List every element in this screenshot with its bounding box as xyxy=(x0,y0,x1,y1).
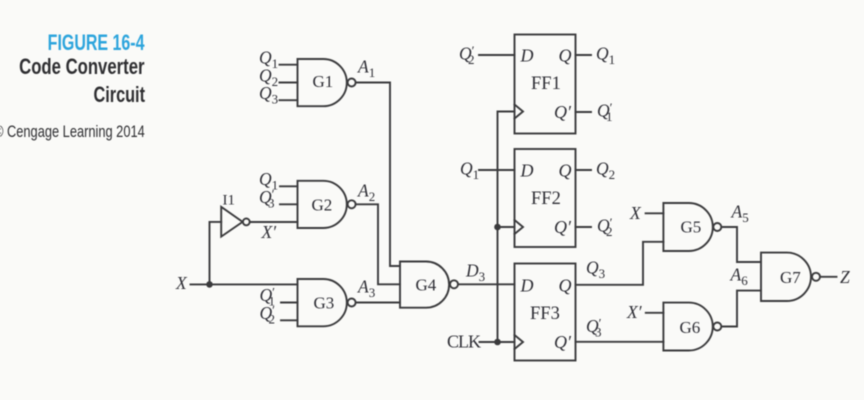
wire A3 from G3 output to G4 bottom input xyxy=(356,302,400,304)
junction clock at FF2 xyxy=(494,224,501,231)
svg-text:Q2: Q2 xyxy=(596,159,615,183)
svg-text:Q′3: Q′3 xyxy=(586,316,602,340)
svg-text:Q′2: Q′2 xyxy=(459,43,475,67)
junction X branch xyxy=(206,281,213,288)
svg-text:Q1: Q1 xyxy=(460,159,479,183)
wire G1 input Q3 xyxy=(280,99,298,101)
wire FF1 Q' output to Q1' xyxy=(576,111,592,113)
wire X branch up to inverter I1 xyxy=(210,222,222,285)
svg-text:G5: G5 xyxy=(681,218,702,237)
wire FF2 Q output to Q2 xyxy=(576,169,592,171)
wire Q3 from FF3 Q output to G5 input xyxy=(576,242,664,285)
wire X input to G5 xyxy=(646,212,664,214)
wire G1 input Q1 xyxy=(280,64,298,66)
gate G3 (3-input NAND) body xyxy=(298,279,347,326)
svg-text:X: X xyxy=(629,203,642,223)
wire FF2 clock branch xyxy=(498,226,515,228)
svg-text:D: D xyxy=(520,46,534,66)
wire FF1 Q output to Q1 xyxy=(576,54,592,56)
svg-text:X′: X′ xyxy=(261,222,278,242)
svg-text:Q′3: Q′3 xyxy=(259,187,275,211)
gate G4 (3-input NAND) body xyxy=(400,262,449,308)
wire X' from I1 output to G2 input xyxy=(250,221,298,223)
flip-flop FF3 clock wedge xyxy=(515,335,524,349)
gate G4 output bubble xyxy=(450,280,458,288)
wire X' input to G6 xyxy=(646,312,664,314)
svg-text:Q′1: Q′1 xyxy=(597,100,613,124)
wire D3 from G4 output to FF3 D input xyxy=(458,283,515,285)
svg-text:G3: G3 xyxy=(314,294,335,313)
gate G1 (3-input NAND) body xyxy=(298,59,347,106)
svg-text:Q′2: Q′2 xyxy=(597,215,613,239)
wire A5 from G5 output to G7 top input xyxy=(721,227,761,262)
flip-flop FF3 box xyxy=(515,264,576,361)
svg-text:A5: A5 xyxy=(731,202,749,226)
svg-text:Q1: Q1 xyxy=(596,44,615,68)
svg-text:Q: Q xyxy=(559,276,572,296)
wire A6 from G6 output to G7 bottom input xyxy=(721,291,761,327)
svg-text:CLK: CLK xyxy=(447,332,481,352)
svg-text:X: X xyxy=(175,273,188,293)
gate G5 output bubble xyxy=(713,223,721,231)
gate G2 output bubble xyxy=(348,200,356,208)
svg-text:Q: Q xyxy=(559,161,572,181)
svg-text:G4: G4 xyxy=(416,276,437,295)
wire G2 input Q3' xyxy=(280,203,298,205)
wire A1 from G1 output to G4 top input xyxy=(356,83,400,267)
wire FF2 Q' output to Q2' xyxy=(576,226,592,228)
svg-text:G2: G2 xyxy=(312,196,333,215)
flip-flop FF1 clock wedge xyxy=(515,105,524,119)
svg-text:X′: X′ xyxy=(626,302,643,322)
svg-text:Circuit: Circuit xyxy=(93,83,145,108)
wire Q3' from FF3 Q' output to G6 input xyxy=(576,341,664,343)
svg-text:Q′: Q′ xyxy=(554,332,572,352)
flip-flop FF1 box xyxy=(515,35,576,134)
svg-text:A1: A1 xyxy=(357,57,375,81)
gate G6 (2-input NAND) body xyxy=(663,303,712,351)
gate G5 (2-input NAND) body xyxy=(663,203,712,251)
svg-text:FF3: FF3 xyxy=(530,304,560,324)
gate G3 output bubble xyxy=(348,299,356,307)
svg-text:FIGURE 16-4: FIGURE 16-4 xyxy=(48,32,145,56)
svg-text:Q′: Q′ xyxy=(554,102,572,122)
flip-flop FF2 clock wedge xyxy=(515,220,524,234)
junction clock at FF3 xyxy=(494,339,501,346)
gate G6 output bubble xyxy=(713,323,721,331)
wire X input line to G3 xyxy=(191,283,298,285)
svg-text:G6: G6 xyxy=(680,318,701,337)
wire A2 from G2 output to G4 middle input xyxy=(356,204,400,284)
wire clock vertical bus xyxy=(498,112,515,343)
gate G2 (3-input NAND) body xyxy=(298,181,347,228)
svg-text:A6: A6 xyxy=(730,265,749,289)
gate G7 output bubble xyxy=(812,273,820,281)
svg-text:I1: I1 xyxy=(223,193,236,209)
inverter I1 bubble xyxy=(243,219,250,226)
wire G3 input Q1' xyxy=(281,302,298,304)
gate G1 output bubble xyxy=(348,79,356,87)
svg-text:A2: A2 xyxy=(357,181,375,205)
svg-text:Q: Q xyxy=(559,46,572,66)
wire G1 input Q2 xyxy=(280,82,298,84)
svg-text:Q′2: Q′2 xyxy=(260,303,276,327)
wire G3 input Q2' xyxy=(281,319,298,321)
svg-text:FF1: FF1 xyxy=(531,74,561,94)
svg-text:A3: A3 xyxy=(357,277,375,301)
svg-text:© Cengage Learning 2014: © Cengage Learning 2014 xyxy=(0,122,145,141)
wire CLK input to FF3 clock xyxy=(480,341,515,343)
svg-text:G1: G1 xyxy=(313,72,334,91)
svg-text:Z: Z xyxy=(840,267,850,287)
flip-flop FF2 box xyxy=(515,149,576,247)
svg-text:Code Converter: Code Converter xyxy=(19,55,145,80)
wire G2 input Q1 xyxy=(280,185,298,187)
svg-text:G7: G7 xyxy=(780,268,801,287)
svg-text:Q′: Q′ xyxy=(554,217,572,237)
gate G7 (2-input NAND) body xyxy=(761,253,811,301)
wire Z from G7 output xyxy=(820,276,837,278)
svg-text:Q3: Q3 xyxy=(586,258,605,282)
svg-text:D: D xyxy=(520,161,534,181)
inverter I1 triangle xyxy=(221,207,242,237)
svg-text:D3: D3 xyxy=(465,261,485,285)
wire Q2' to FF1 D input xyxy=(479,54,515,56)
wire Q1 to FF2 D input xyxy=(479,169,515,171)
svg-text:D: D xyxy=(520,276,534,296)
svg-text:FF2: FF2 xyxy=(531,189,561,209)
